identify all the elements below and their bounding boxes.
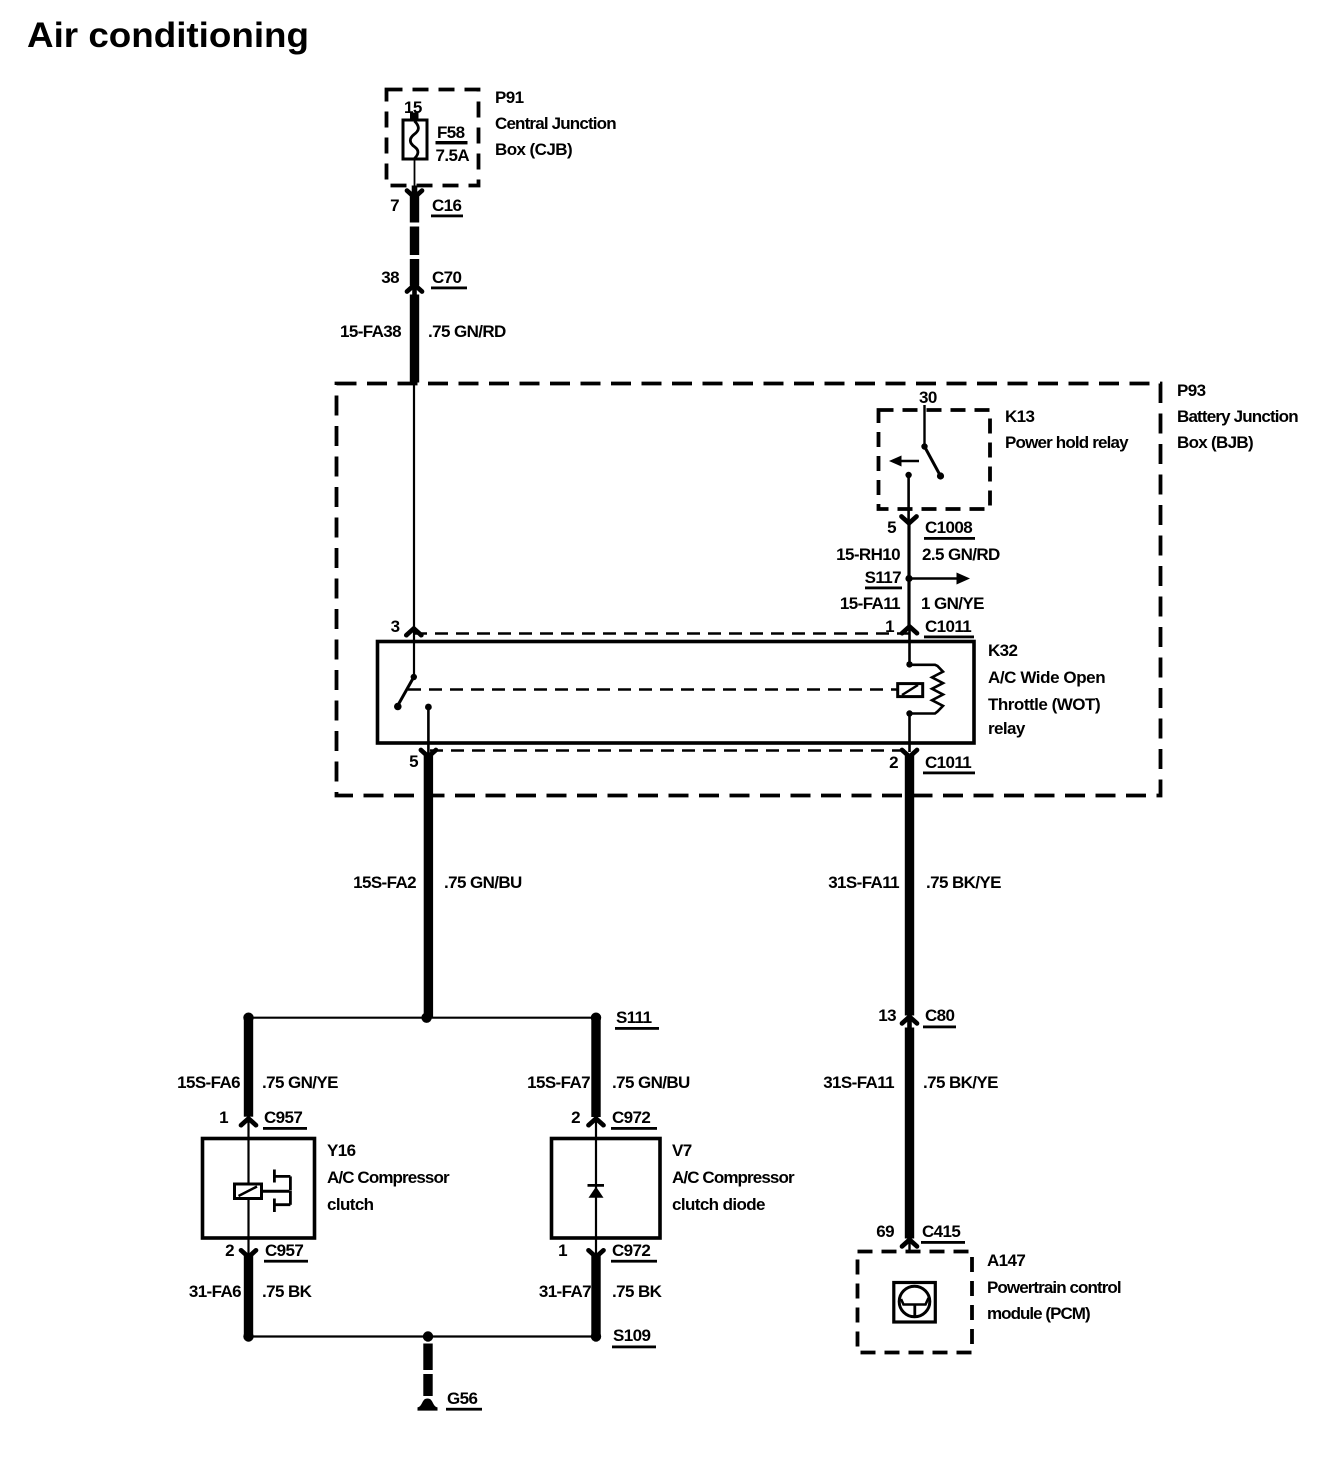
splice S111 [243, 1008, 659, 1030]
svg-text:15-FA11: 15-FA11 [840, 594, 900, 613]
svg-text:Throttle (WOT): Throttle (WOT) [988, 695, 1100, 714]
connector dashed line pins 5-2 [430, 749, 908, 751]
svg-text:C1011: C1011 [925, 617, 971, 636]
wire inside BJB from border to K32 pin 3 [413, 383, 415, 677]
splice S117 [865, 568, 970, 589]
svg-text:C415: C415 [922, 1222, 960, 1241]
wire to ground [423, 1344, 432, 1397]
svg-text:Power hold relay: Power hold relay [1005, 433, 1129, 452]
svg-text:69: 69 [876, 1222, 894, 1241]
svg-text:31-FA6: 31-FA6 [189, 1282, 241, 1301]
svg-text:Y16: Y16 [327, 1141, 356, 1160]
svg-text:2.5 GN/RD: 2.5 GN/RD [922, 545, 1000, 564]
svg-text:15-RH10: 15-RH10 [836, 545, 900, 564]
svg-text:Central Junction: Central Junction [495, 114, 616, 133]
svg-text:7: 7 [390, 196, 399, 215]
svg-text:clutch diode: clutch diode [672, 1195, 765, 1214]
svg-text:.75 BK/YE: .75 BK/YE [923, 1073, 998, 1092]
svg-text:C80: C80 [925, 1006, 955, 1025]
wire 15-RH10 2.5 GN/RD [836, 521, 1000, 630]
svg-text:15-FA38: 15-FA38 [340, 322, 401, 341]
K32 internal switch [394, 674, 432, 754]
svg-text:relay: relay [988, 719, 1026, 738]
module A147 PCM dashed outline [858, 1252, 973, 1353]
svg-text:V7: V7 [672, 1141, 692, 1160]
svg-text:3: 3 [391, 617, 400, 636]
svg-text:C1008: C1008 [925, 518, 972, 537]
connector C957 pin 2 [225, 1238, 308, 1263]
svg-text:1: 1 [558, 1241, 567, 1260]
svg-text:15S-FA6: 15S-FA6 [177, 1073, 240, 1092]
svg-text:K32: K32 [988, 641, 1018, 660]
svg-text:C957: C957 [265, 1241, 303, 1260]
svg-text:A/C Wide Open: A/C Wide Open [988, 668, 1105, 687]
svg-text:Box (BJB): Box (BJB) [1177, 433, 1253, 452]
wire 15S-FA2 .75 GN/BU [353, 755, 522, 1018]
svg-text:.75 BK/YE: .75 BK/YE [926, 873, 1001, 892]
svg-text:2: 2 [571, 1108, 580, 1127]
svg-text:clutch: clutch [327, 1195, 374, 1214]
svg-text:15S-FA7: 15S-FA7 [527, 1073, 590, 1092]
svg-text:.75 BK: .75 BK [262, 1282, 313, 1301]
svg-text:module (PCM): module (PCM) [987, 1304, 1090, 1323]
svg-text:7.5A: 7.5A [436, 146, 470, 165]
K32 coil [898, 641, 943, 752]
fuse value label F58 / 7.5A [436, 123, 470, 165]
svg-text:A/C Compressor: A/C Compressor [327, 1168, 450, 1187]
connector C1011 pin 1 [885, 617, 974, 642]
connector C1008 pin 5 [887, 517, 975, 540]
svg-text:C16: C16 [432, 196, 462, 215]
svg-text:31-FA7: 31-FA7 [539, 1282, 591, 1301]
svg-text:.75 GN/BU: .75 GN/BU [444, 873, 522, 892]
svg-text:31S-FA11: 31S-FA11 [823, 1073, 894, 1092]
Y16 label [327, 1141, 450, 1214]
connector C16 pin 7 [390, 186, 463, 218]
ground G56 [418, 1389, 483, 1411]
svg-text:A/C Compressor: A/C Compressor [672, 1168, 795, 1187]
relay K32 box [378, 642, 975, 744]
svg-text:A147: A147 [987, 1251, 1025, 1270]
svg-text:2: 2 [889, 753, 898, 772]
svg-text:38: 38 [381, 268, 399, 287]
connector C70 pin 38 [381, 268, 467, 295]
connector C972 pin 2 [571, 1108, 657, 1130]
svg-text:1 GN/YE: 1 GN/YE [921, 594, 984, 613]
svg-text:K13: K13 [1005, 407, 1035, 426]
svg-text:C70: C70 [432, 268, 462, 287]
svg-text:Air conditioning: Air conditioning [27, 16, 309, 55]
K32 pin 5 [409, 750, 436, 771]
junction box P93 (BJB) dashed outline [337, 384, 1161, 796]
connector dashed line pins 3-1 [414, 632, 909, 634]
svg-text:G56: G56 [447, 1389, 477, 1408]
splice S109 [243, 1326, 656, 1348]
svg-text:S117: S117 [865, 568, 902, 587]
connector C415 pin 69 [876, 1222, 965, 1252]
wire 31S-FA11 .75 BK/YE upper [828, 755, 1001, 1016]
A/C compressor clutch Y16 box [203, 1139, 315, 1239]
svg-text:5: 5 [409, 752, 418, 771]
A/C compressor clutch diode V7 box [552, 1139, 661, 1239]
wire from C16 to C70 [410, 195, 419, 286]
K32 pin 2, connector C1011 [889, 750, 975, 774]
svg-text:.75 GN/BU: .75 GN/BU [612, 1073, 690, 1092]
P91 label [495, 88, 616, 159]
svg-text:P93: P93 [1177, 381, 1206, 400]
svg-text:31S-FA11: 31S-FA11 [828, 873, 899, 892]
A147 label [987, 1251, 1121, 1323]
relay K32 pin 3 [391, 617, 422, 636]
K32 label [988, 641, 1105, 738]
svg-text:1: 1 [219, 1108, 228, 1127]
K32 mechanical link dashed [408, 688, 898, 691]
svg-text:C957: C957 [264, 1108, 302, 1127]
svg-text:30: 30 [919, 388, 937, 407]
wire 15-FA38 .75 GN/RD [340, 295, 506, 383]
K13 internal switch [889, 405, 944, 521]
wire 15-FA11 1 GN/YE [840, 594, 984, 613]
svg-text:P91: P91 [495, 88, 524, 107]
svg-text:Battery Junction: Battery Junction [1177, 407, 1298, 426]
svg-text:C972: C972 [612, 1241, 650, 1260]
svg-text:.75 BK: .75 BK [612, 1282, 663, 1301]
Y16 internal solenoid and clutch [235, 1117, 291, 1238]
svg-text:5: 5 [887, 518, 896, 537]
A147 PCM icon [894, 1283, 936, 1323]
svg-text:Box (CJB): Box (CJB) [495, 140, 572, 159]
V7 internal diode [588, 1117, 605, 1238]
fuse F58 7.5A [403, 98, 427, 190]
wire 31-FA7 .75 BK [539, 1256, 663, 1337]
svg-text:13: 13 [878, 1006, 896, 1025]
svg-text:Powertrain control: Powertrain control [987, 1278, 1121, 1297]
wire 31-FA6 .75 BK [189, 1256, 313, 1337]
P93 label [1177, 381, 1298, 452]
junction box P91 (CJB) dashed outline [387, 90, 479, 186]
svg-text:15S-FA2: 15S-FA2 [353, 873, 416, 892]
svg-text:.75 GN/YE: .75 GN/YE [262, 1073, 338, 1092]
svg-text:F58: F58 [437, 123, 465, 142]
connector C80 pin 13 [878, 1006, 956, 1028]
connector C972 pin 1 [558, 1238, 657, 1263]
svg-text:C1011: C1011 [925, 753, 971, 772]
V7 label [672, 1141, 795, 1214]
svg-text:S111: S111 [616, 1008, 652, 1027]
relay K13 dashed outline, pin 30 [879, 388, 991, 509]
svg-text:C972: C972 [612, 1108, 650, 1127]
K13 label [1005, 407, 1129, 452]
svg-text:S109: S109 [613, 1326, 650, 1345]
wire 15S-FA7 .75 GN/BU [527, 1018, 690, 1117]
wire 31S-FA11 .75 BK/YE lower [823, 1028, 998, 1239]
svg-text:.75 GN/RD: .75 GN/RD [428, 322, 506, 341]
svg-text:2: 2 [225, 1241, 234, 1260]
connector C957 pin 1 [219, 1108, 307, 1130]
wire 15S-FA6 .75 GN/YE [177, 1018, 338, 1117]
